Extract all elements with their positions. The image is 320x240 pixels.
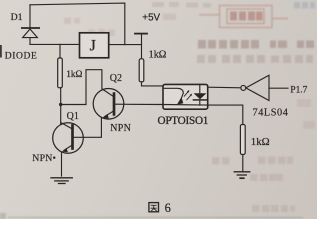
diode D1 (22, 5, 39, 45)
wire inverter input to P1.7 (269, 87, 288, 89)
power terminal +5V (135, 33, 147, 35)
svg-text:J: J (90, 38, 96, 55)
svg-text:NPN•: NPN• (32, 153, 56, 164)
svg-text:+5V: +5V (142, 13, 160, 24)
emitter diode side (163, 88, 183, 100)
wire top flyback loop (30, 3, 125, 45)
svg-text:1kΩ: 1kΩ (251, 136, 270, 148)
inverter U2 74LS04 (241, 75, 269, 100)
LED (199, 84, 201, 93)
svg-text:DIODE: DIODE (5, 50, 38, 61)
transistor Q2 (93, 89, 124, 120)
ground for R3 (234, 172, 250, 178)
caption figure 6 (149, 201, 171, 215)
wire Q2 base to optocoupler emitter (115, 103, 163, 105)
svg-text:NPN: NPN (110, 123, 131, 134)
relay coil J (80, 33, 109, 58)
svg-text:1kΩ: 1kΩ (66, 70, 82, 80)
svg-text:D1: D1 (11, 12, 23, 23)
transistor Q1 (53, 123, 84, 176)
wire R1 to Q1 collector (60, 88, 62, 124)
wire Q2 emitter to Q1 base (74, 118, 102, 137)
svg-text:1kΩ: 1kΩ (149, 50, 167, 61)
wire optocoupler emitter to R3 (208, 105, 243, 124)
ground for Q1 emitter (51, 178, 72, 184)
wire optocoupler LED cathode to inverter output (208, 86, 241, 89)
svg-text:Q1: Q1 (67, 111, 79, 122)
svg-text:P1.7: P1.7 (290, 86, 307, 96)
wire relay J to +5V rail (109, 44, 142, 46)
junction node dot (59, 103, 62, 106)
svg-text:Q2: Q2 (110, 73, 122, 84)
wire R3 to ground (242, 155, 244, 172)
wire R2 to optocoupler LED anode (142, 82, 164, 86)
svg-text:6: 6 (165, 201, 171, 215)
optocoupler U1 OPTOISO1 (163, 84, 208, 109)
resistor R3 1k (240, 125, 245, 155)
internal emitter line (163, 104, 208, 107)
wire +5V rail (141, 34, 143, 59)
svg-text:74LS04: 74LS04 (253, 108, 289, 119)
resistor R1 1k (58, 44, 63, 87)
wire collector tie Q1-Q2 (61, 70, 102, 105)
resistor R2 1k (139, 59, 144, 82)
light arrows (184, 91, 191, 100)
svg-text:OPTOISO1: OPTOISO1 (158, 115, 209, 127)
wire D1 anode to relay J (30, 43, 80, 45)
